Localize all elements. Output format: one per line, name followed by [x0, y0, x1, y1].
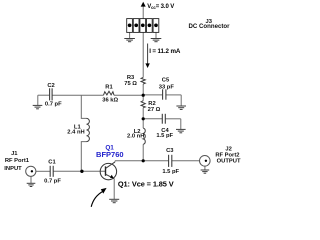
svg-text:1.5 pF: 1.5 pF	[156, 133, 173, 139]
svg-text:1.5 pF: 1.5 pF	[162, 169, 179, 175]
svg-text:OUTPUT: OUTPUT	[217, 158, 241, 164]
svg-text:DC Connector: DC Connector	[189, 23, 231, 30]
svg-text:INPUT: INPUT	[4, 166, 22, 172]
svg-text:C1: C1	[48, 160, 56, 166]
svg-text:75 Ω: 75 Ω	[124, 81, 137, 87]
svg-text:36 kΩ: 36 kΩ	[102, 97, 118, 103]
svg-text:Q1: Vce = 1.85 V: Q1: Vce = 1.85 V	[118, 180, 174, 189]
svg-text:33 pF: 33 pF	[159, 84, 175, 90]
svg-text:2.0 nH: 2.0 nH	[127, 133, 144, 139]
svg-text:Vcc= 3.0 V: Vcc= 3.0 V	[147, 4, 174, 10]
svg-text:27 Ω: 27 Ω	[148, 107, 161, 113]
svg-text:C5: C5	[162, 77, 170, 83]
svg-text:C2: C2	[47, 83, 54, 89]
svg-text:R3: R3	[127, 75, 135, 81]
svg-text:I = 11.2 mA: I = 11.2 mA	[149, 48, 181, 55]
svg-text:C3: C3	[166, 148, 174, 154]
svg-text:R2: R2	[148, 101, 155, 107]
svg-text:2.4 nH: 2.4 nH	[67, 130, 84, 136]
svg-text:RF Port1: RF Port1	[5, 158, 30, 164]
svg-text:R1: R1	[105, 85, 113, 91]
svg-text:0.7 pF: 0.7 pF	[45, 101, 62, 107]
svg-text:0.7 pF: 0.7 pF	[44, 178, 61, 184]
svg-text:J1: J1	[11, 151, 18, 157]
svg-text:BFP760: BFP760	[96, 150, 124, 159]
